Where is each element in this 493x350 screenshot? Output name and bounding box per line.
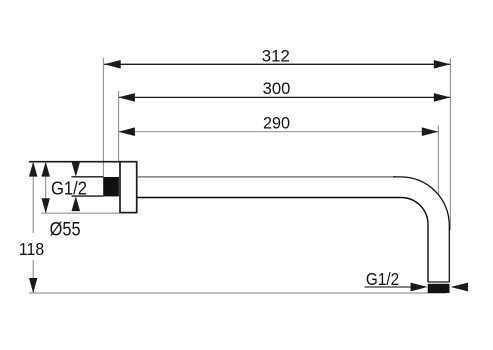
svg-text:G1/2: G1/2 [51, 177, 87, 198]
extension line thread top [72, 176, 104, 178]
dimension 118 line [29, 162, 37, 293]
svg-text:118: 118 [19, 239, 44, 259]
svg-text:312: 312 [262, 47, 290, 66]
svg-text:G1/2: G1/2 [366, 269, 399, 289]
dimension 290 line [118, 127, 438, 136]
svg-text:Ø55: Ø55 [50, 218, 81, 239]
extension line right of 290 (pipe centerline) [437, 126, 439, 195]
shower arm pipe outline [137, 177, 449, 282]
svg-text:300: 300 [263, 79, 291, 98]
extension line thread bottom [72, 195, 104, 197]
svg-text:290: 290 [263, 113, 290, 132]
dimension 312 line [104, 60, 450, 69]
extension line flange bottom [41, 212, 119, 214]
extension line right of 312/300 (pipe outer edge) [449, 58, 451, 230]
outlet thread (black) [428, 284, 450, 293]
extension line left of 312 (thread end) [102, 58, 104, 177]
extension line flange top [29, 161, 120, 163]
extension line left of 300/290 (wall face) [118, 91, 120, 162]
flange (escutcheon) [120, 162, 137, 213]
wall thread (black) [103, 177, 119, 196]
bottom reference line [29, 292, 446, 294]
dimension G1/2 outlet leader and arrows [365, 283, 469, 292]
dimension G1/2 wall arrows [72, 162, 81, 211]
dimension D55 line [42, 162, 50, 214]
dimension 300 line [118, 93, 450, 102]
